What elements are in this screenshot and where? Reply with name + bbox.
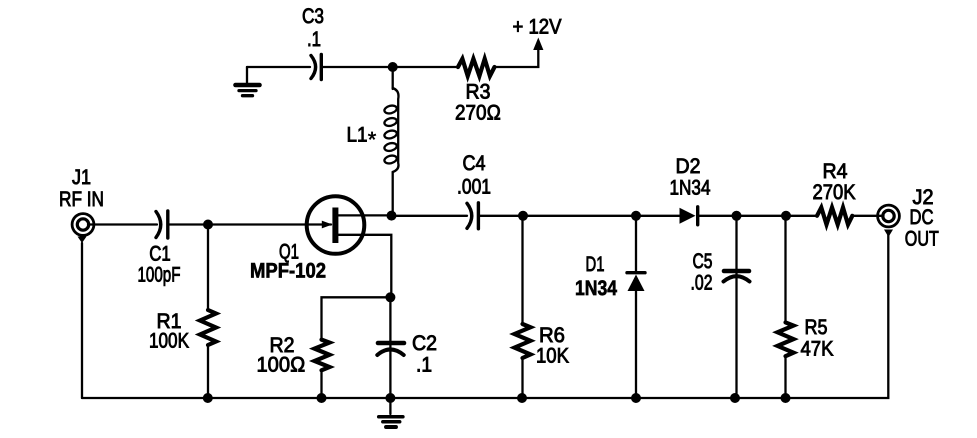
node top (L1 top / rail junction) xyxy=(388,62,398,72)
diode D2 xyxy=(680,207,698,225)
wire drain node to C4 xyxy=(392,215,468,217)
node C1/R1 junction xyxy=(203,220,213,230)
wire D1 node to D2 xyxy=(636,215,680,217)
ground (bottom center) stub xyxy=(389,398,391,414)
svg-text:C5: C5 xyxy=(693,250,713,273)
node C5 top xyxy=(732,211,742,221)
svg-text:C3: C3 xyxy=(302,5,324,28)
transistor Q1 xyxy=(307,196,392,297)
svg-text:270Ω: 270Ω xyxy=(455,102,501,125)
wire D1 branch upper lead xyxy=(635,216,637,271)
wire L1 top lead xyxy=(392,67,394,89)
svg-text:.1: .1 xyxy=(416,354,432,377)
resistor R2 xyxy=(315,340,330,371)
J2 pin arrow xyxy=(884,230,893,238)
svg-text:RF IN: RF IN xyxy=(59,188,104,211)
svg-text:270K: 270K xyxy=(813,181,856,204)
node R5 top xyxy=(781,211,791,221)
node bottom R2 xyxy=(317,393,327,403)
connector J2 xyxy=(878,205,900,227)
resistor R1 xyxy=(200,310,216,345)
svg-text:100K: 100K xyxy=(149,330,189,353)
node bottom R6 xyxy=(517,393,527,403)
node R6 top xyxy=(518,211,528,221)
svg-text:C1: C1 xyxy=(149,243,171,266)
wire top rail left (ground stub to C3) xyxy=(247,66,310,68)
wire D2 to C5 node xyxy=(699,215,737,217)
wire R6 to bottom rail xyxy=(521,358,523,398)
wire top rail C3 to node xyxy=(323,66,393,68)
svg-text:R4: R4 xyxy=(823,160,848,183)
svg-text:C2: C2 xyxy=(412,332,437,355)
svg-text:100Ω: 100Ω xyxy=(257,354,306,377)
svg-text:D1: D1 xyxy=(586,253,605,276)
resistor R4 xyxy=(817,208,852,225)
svg-text:MPF-102: MPF-102 xyxy=(250,260,326,283)
wire R5 to bottom rail xyxy=(784,356,786,398)
wire R5 branch down xyxy=(784,216,786,323)
wire C4 to R6 node xyxy=(480,215,523,217)
+12V arrow xyxy=(533,38,543,51)
resistor R3 xyxy=(458,59,495,76)
svg-text:R5: R5 xyxy=(805,316,828,339)
wire J1 down left rail xyxy=(81,243,83,398)
resistor R6 xyxy=(515,324,531,358)
wire R6 node to D1 node xyxy=(523,215,636,217)
wire D1 to bottom rail xyxy=(635,291,637,398)
svg-text:*: * xyxy=(368,127,377,152)
svg-text:10K: 10K xyxy=(536,345,569,368)
diode D1 xyxy=(627,273,645,291)
node drain xyxy=(387,211,397,221)
wire R4 to J2 xyxy=(852,215,884,217)
wire R6 branch down xyxy=(521,216,523,324)
wire R5 node to R4 xyxy=(786,215,817,217)
svg-text:1N34: 1N34 xyxy=(670,177,711,200)
resistor R5 xyxy=(778,322,794,356)
svg-text:C4: C4 xyxy=(463,152,486,175)
wire R1 branch down xyxy=(207,225,209,311)
svg-text:L1: L1 xyxy=(347,124,368,147)
wire source node to C2 xyxy=(389,297,391,398)
node bottom C5 xyxy=(730,393,740,403)
wire source node to R2 branch xyxy=(322,297,391,339)
wire R2 to bottom rail xyxy=(320,370,322,398)
node source xyxy=(385,292,395,302)
wire top rail node to R3 xyxy=(393,66,458,68)
svg-text:1N34: 1N34 xyxy=(575,277,617,300)
node bottom C2/ground xyxy=(385,393,395,403)
node D1 top xyxy=(631,211,641,221)
inductor L1 xyxy=(384,88,399,172)
wire C5 branch down xyxy=(735,216,737,398)
wire R1 to bottom rail xyxy=(207,345,209,398)
capacitor C2 xyxy=(377,343,404,355)
wire J2 down to bottom rail xyxy=(82,235,888,399)
J1 pin arrow xyxy=(78,237,87,244)
svg-text:+ 12V: + 12V xyxy=(513,16,562,39)
capacitor C1 xyxy=(156,211,168,238)
wire L1 bottom lead to drain node xyxy=(392,172,394,216)
capacitor C4 xyxy=(467,203,478,229)
ground (top left) xyxy=(236,85,260,96)
svg-text:.1: .1 xyxy=(307,28,321,51)
ground (bottom center) xyxy=(379,417,403,427)
connector J1 xyxy=(72,214,94,236)
node bottom R5 xyxy=(781,393,791,403)
svg-text:.001: .001 xyxy=(457,176,491,199)
svg-text:DC: DC xyxy=(910,206,934,229)
wire J1 to C1 xyxy=(88,223,157,225)
svg-text:OUT: OUT xyxy=(905,228,939,251)
node bottom R1 xyxy=(203,393,213,403)
svg-text:R3: R3 xyxy=(466,81,491,104)
svg-text:J1: J1 xyxy=(72,166,91,189)
capacitor C5 xyxy=(724,271,750,282)
wire C1 to gate (through node) xyxy=(170,223,332,225)
svg-text:47K: 47K xyxy=(801,338,834,361)
wire ground stub drop xyxy=(246,67,248,84)
svg-text:100pF: 100pF xyxy=(138,264,181,287)
wire R3 to +12V corner xyxy=(495,49,539,67)
node bottom D1 xyxy=(631,393,641,403)
capacitor C3 xyxy=(311,55,321,80)
svg-text:.02: .02 xyxy=(691,272,713,295)
wire C5 node to R5 node xyxy=(737,215,787,217)
svg-text:D2: D2 xyxy=(676,155,701,178)
